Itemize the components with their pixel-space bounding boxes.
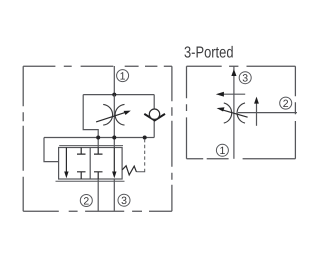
svg-text:1: 1 xyxy=(219,145,225,157)
port 2 line (right diagram) xyxy=(238,112,297,114)
node: bus at dashed pilot xyxy=(143,136,147,140)
port 3 label xyxy=(118,194,130,207)
flow arrow up to port 3 xyxy=(231,69,236,76)
valve V1 left position: blocked port top xyxy=(77,148,86,155)
check valve CV1 seat xyxy=(144,114,165,121)
port 3 label (right) xyxy=(239,72,251,85)
wire: port 3 drop line xyxy=(113,179,115,211)
valve V1 right position: blocked port bottom xyxy=(94,172,103,179)
node: bus at center line xyxy=(112,136,116,140)
node: junction at port1/loop xyxy=(112,93,116,97)
check valve CV1 line xyxy=(153,95,155,138)
wire: port 2 drop line xyxy=(97,179,99,211)
port 2 label (right) xyxy=(280,97,292,110)
wire: pilot bus xyxy=(44,137,145,139)
valve V1 infinite-positioning parallel lines xyxy=(59,145,123,147)
flow control FC1 vertical line xyxy=(113,95,115,148)
svg-text:3: 3 xyxy=(242,73,248,85)
valve V1 right position: blocked port top xyxy=(94,148,103,155)
port 1 label xyxy=(117,70,129,83)
valve V1 left position: flow arrow xyxy=(64,148,68,179)
flow control FC2 adjustment arrow xyxy=(217,107,248,117)
check valve CV1 ball xyxy=(149,109,159,119)
svg-text:1: 1 xyxy=(120,70,126,82)
wire: pilot to valve left end xyxy=(44,138,59,162)
node: bus at left branch xyxy=(96,136,100,140)
wire: check branch to pilot bus xyxy=(145,137,155,139)
flow control FC2 arcs xyxy=(224,103,232,123)
valve V1 body boxes xyxy=(59,148,123,180)
left diagram dashed boundary box xyxy=(23,66,172,211)
valve V1 left position: blocked port bottom xyxy=(77,172,86,179)
regulated flow arrow pointing left xyxy=(216,92,245,97)
flow control FC1 arcs xyxy=(103,104,112,125)
flow control FC1 adjustment arrow xyxy=(96,111,131,122)
svg-text:3-Ported: 3-Ported xyxy=(184,45,234,62)
bypass flow arrow up near port 2 xyxy=(254,97,259,126)
wire: top loop horizontal xyxy=(83,94,154,96)
spring S1 xyxy=(122,166,136,175)
wire: left loop branch down to valve xyxy=(83,95,98,148)
dashed pilot line to spring side xyxy=(144,139,146,167)
port 1 label (right) xyxy=(216,144,228,157)
valve V1 right position: flow arrow xyxy=(112,148,116,179)
right diagram main vertical line port3-port1 xyxy=(233,66,235,159)
svg-text:3: 3 xyxy=(121,195,127,207)
port 2 label xyxy=(80,195,92,208)
port 1 line xyxy=(113,66,115,95)
right diagram dashed boundary box xyxy=(187,66,296,159)
svg-text:2: 2 xyxy=(83,195,89,207)
svg-text:2: 2 xyxy=(283,98,289,110)
